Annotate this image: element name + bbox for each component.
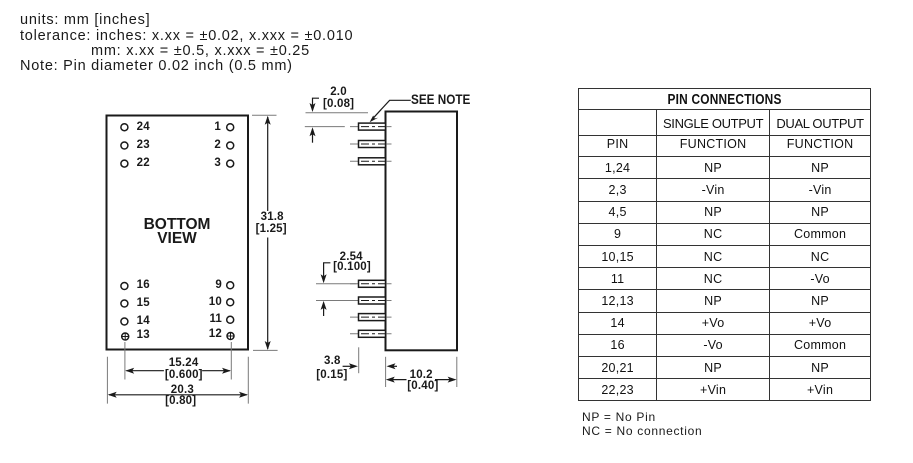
table footnote NC [582, 424, 702, 438]
dimension label [0.15] [302, 369, 362, 381]
dimension 15.24 extension lines (pin 13 / pin 12 centers) [125, 342, 231, 380]
bottom view pin circles left top: pins 24,23,22 [121, 124, 128, 167]
dimension label 2.0 [309, 86, 369, 98]
pin number label 15 [137, 297, 150, 309]
dimension 2.54 extension lines [316, 283, 357, 285]
bottom view pin circles right top: pins 1,2,3 [227, 124, 234, 167]
pin number label 14 [137, 315, 150, 327]
side view case outline [386, 112, 458, 351]
dimension 10.2 extension lines [385, 357, 387, 387]
dimension label [0.600] [154, 369, 214, 381]
bottom view label [106, 218, 248, 246]
pin connections table [578, 88, 871, 401]
pin number label 24 [137, 121, 150, 133]
side view lower pin a [350, 280, 392, 287]
pin number label 3 [200, 157, 221, 169]
see note label [411, 94, 470, 106]
dimension 2.0 extension line (case top) [306, 112, 369, 114]
pin number label 22 [137, 157, 150, 169]
pin number label 11 [201, 313, 222, 325]
dimension label [0.80] [151, 395, 211, 407]
side view lower pin b [350, 297, 392, 304]
dimension 20.3 extension lines (case edges) [107, 357, 248, 404]
dimension 31.8 extension line bottom [253, 349, 278, 351]
bottom view pin circles right bottom: pins 9,10,11 and polarized pin 12 [227, 282, 234, 340]
table footnote NP [582, 410, 656, 424]
dimension label 20.3 [152, 384, 212, 396]
bottom view case outline [107, 116, 249, 350]
side view upper pin 3 [350, 158, 392, 165]
dimension label [0.08] [309, 98, 369, 110]
dimension 10.2 line with arrows [388, 379, 407, 381]
see note leader line and arrow [371, 100, 411, 120]
dimension 20.3 line with arrows [109, 394, 247, 396]
dimension 31.8 line with arrows [267, 117, 269, 349]
pin number label 1 [200, 121, 221, 133]
header note text line 1 [20, 12, 150, 28]
side view lower pin c [350, 314, 392, 321]
dimension 2.0 extension line (pin 1 center) [305, 126, 345, 128]
dimension 3.8 extension line (pin tip) [358, 347, 360, 373]
side view lower pin d [350, 330, 392, 337]
side view upper pin 2 [350, 141, 392, 148]
dimension label 2.54 [321, 251, 381, 263]
pin number label 12 [201, 328, 222, 340]
dimension label 3.8 [302, 355, 362, 367]
dimension label 31.8 [242, 211, 302, 223]
dimension 31.8 extension line top [252, 114, 277, 116]
dimension 3.8 arrows [343, 365, 355, 367]
header note text line 2 [20, 28, 353, 44]
dimension label [1.25] [241, 223, 301, 235]
header note text line 4 [20, 58, 293, 74]
dimension label 15.24 [154, 357, 214, 369]
pin number label 16 [137, 279, 150, 291]
pin number label 9 [201, 279, 222, 291]
dimension label [0.40] [393, 380, 453, 392]
pin number label 2 [200, 139, 221, 151]
dimension label 10.2 [391, 369, 451, 381]
header note text line 3 [91, 43, 310, 59]
dimension 15.24 line with arrows [127, 370, 230, 372]
dimension 2.0 bracket and arrows [313, 98, 320, 109]
pin number label 10 [201, 296, 222, 308]
side view upper pin 1 [350, 123, 392, 130]
dimension 2.54 bracket and arrows [324, 263, 331, 281]
pin number label 23 [137, 139, 150, 151]
pin number label 13 [137, 329, 150, 341]
dimension label [0.100] [322, 261, 382, 273]
bottom view pin circles left bottom: pins 16,15,14 and polarized pin 13 [121, 283, 129, 341]
